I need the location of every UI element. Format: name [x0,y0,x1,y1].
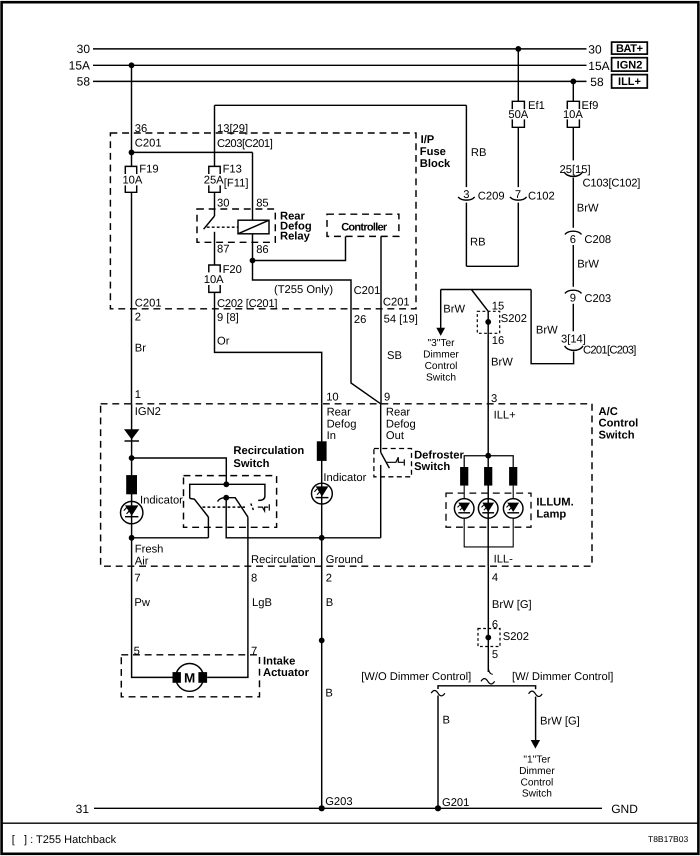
wire A/C pin 4 BrW[G] to splice S202 [487,566,489,672]
arrow to "3"Ter dimmer switch [436,328,445,336]
svg-text:10A: 10A [563,109,583,121]
resistor for indicator LED [126,475,137,494]
svg-text:Fuse: Fuse [420,146,446,158]
svg-text:87: 87 [217,244,229,256]
wire ground B with splice dot [319,638,325,644]
wire from 30 line to fuse Ef1 [517,49,519,101]
wire controller left output to relay pin 86 junction [253,236,346,260]
relay coil 85-86 [238,220,269,234]
svg-text:Rear: Rear [386,407,411,419]
svg-text:I/P: I/P [421,134,435,146]
svg-text:Switch: Switch [522,789,552,800]
LED lamp 2 [478,499,498,519]
svg-text:BrW: BrW [491,357,513,369]
svg-text:Relay: Relay [280,231,311,243]
svg-text:9: 9 [570,293,576,305]
junction Fresh Air corner [129,535,135,541]
intake actuator box [121,655,259,697]
svg-text:7: 7 [134,573,140,585]
wire coil feed pin 85 [252,152,254,220]
defroster switch S2 [374,449,412,477]
svg-text:GND: GND [611,802,638,816]
LED lamp 1 [454,499,474,519]
svg-text:BAT+: BAT+ [616,43,643,55]
junction ground bus [319,535,325,541]
junction on 58 line [570,79,576,85]
svg-text:Switch: Switch [426,372,456,383]
svg-text:Recirculation: Recirculation [233,445,304,457]
wire relay pin 86 [252,234,254,261]
svg-text:Intake: Intake [263,655,295,667]
wire BrW[G] to "1"Ter dimmer control switch [535,697,537,741]
wire from 58 line to fuse Ef9 [572,81,574,101]
fuse F13 25A [F11] [209,166,220,192]
label "1"Ter Dimmer Control Switch [519,755,555,800]
svg-text:F20: F20 [223,264,242,276]
svg-text:B: B [325,687,332,699]
node A common [223,481,229,487]
svg-text:Switch: Switch [599,429,635,441]
resistor lamp 1 [460,467,468,486]
svg-text:"1"Ter: "1"Ter [523,755,551,766]
svg-text:25[15]: 25[15] [560,164,591,176]
svg-text:36: 36 [135,123,147,135]
svg-text:BrW [G]: BrW [G] [492,599,532,611]
svg-text:B: B [443,714,450,726]
svg-text:Defog: Defog [327,418,357,430]
motor M brushes [173,672,181,683]
wire S202 pin 16 down to A/C pin 3 [487,311,489,455]
wire pin1 through diode/indicator chain to Fresh Air [131,404,133,538]
svg-text:T8B17B03: T8B17B03 [648,834,688,844]
momentary actuator glyph [258,504,270,511]
svg-text:Out: Out [386,430,405,442]
svg-text:9: 9 [384,391,390,403]
svg-text:Br: Br [135,343,146,355]
svg-text:A/C: A/C [599,406,618,418]
svg-text:RB: RB [470,237,486,249]
svg-text:C103[C102]: C103[C102] [583,177,641,189]
svg-text:30: 30 [588,42,602,56]
svg-text:Defroster: Defroster [414,449,464,461]
svg-text:In: In [327,430,336,442]
wire pin 10 through indicator to ground / G203 [321,404,323,809]
diode D1 [124,429,139,439]
controller U1 [327,214,399,236]
ground G201 [435,805,441,811]
relay actuating link (dashed) [207,226,238,228]
svg-text:Air: Air [135,555,149,567]
wire left contact down to ground segment [207,517,209,538]
svg-text:C208: C208 [584,234,611,246]
resistor lamp 2 [484,467,492,486]
svg-text:Dimmer: Dimmer [519,766,555,777]
svg-text:6: 6 [570,234,576,246]
relay Rear Defog Relay [197,209,275,242]
svg-text:85: 85 [256,198,268,210]
svg-text:C203: C203 [584,293,611,305]
switch linkage dashed [203,506,246,508]
svg-text:10A: 10A [122,175,142,187]
svg-text:5: 5 [134,646,140,658]
wire Ef1 to connector C102 [517,127,519,187]
wire BrW to connector C203 [572,245,574,287]
motor M [176,664,204,692]
svg-text:F13: F13 [223,164,242,176]
svg-text:S202: S202 [501,313,527,325]
wire ground segment to recirc left contact [132,537,209,539]
wire BrW to connector C208 [572,178,574,228]
svg-text:58: 58 [590,75,604,89]
svg-text:C102: C102 [528,191,555,203]
svg-text:Defog: Defog [386,418,416,430]
svg-text:30: 30 [77,42,91,56]
svg-text:4: 4 [492,572,498,584]
svg-text:Control: Control [520,777,553,788]
connector C209 pin 3 [458,197,475,200]
svg-text:Controller: Controller [341,221,388,233]
svg-text:C201: C201 [383,297,410,309]
power net BAT+ [612,42,648,54]
svg-text:C201[C203]: C201[C203] [583,344,636,356]
svg-text:31: 31 [76,802,90,816]
svg-text:C203[C201]: C203[C201] [217,138,273,150]
svg-text:Lamp: Lamp [536,508,566,520]
wire common bus of switch [190,484,265,500]
svg-text:8: 8 [251,573,257,585]
wire RB from top horizontal down to C209 [465,105,467,187]
svg-text:M: M [184,671,195,686]
recirculation switch S1 [184,476,277,528]
wire bus line 15A [93,64,587,66]
wire top horizontal F13 to RB [215,104,467,106]
wire C102 down to U-bend [517,203,519,267]
svg-text:Ef1: Ef1 [528,100,545,112]
svg-text:Switch: Switch [233,458,269,470]
wire controller right output SB down to A/C pin 9 [380,236,382,403]
wire lamp return bus ILL- [464,518,513,547]
splice S202 (lower) [478,629,500,647]
svg-text:C201: C201 [135,297,162,309]
LED lamp 3 [503,499,523,519]
resistor for defog indicator [317,441,327,461]
wire to recirculation switch common [132,458,227,484]
wire A/C pin 7 to intake actuator motor [132,538,173,678]
option break squiggle left [431,691,445,696]
wire end curl [488,668,492,674]
svg-text:5: 5 [492,649,498,661]
svg-text:[ ] : T255 Hatchback: [ ] : T255 Hatchback [12,834,117,846]
fuse Ef1 50A [512,101,524,127]
connector C203 pin 9 [565,290,582,293]
connector C102 pin 7 [510,197,527,200]
junction feeding relay coil [129,150,135,156]
svg-text:ILLUM.: ILLUM. [536,497,573,509]
svg-text:Or: Or [217,336,230,348]
svg-text:G201: G201 [442,797,469,809]
wire resistors into lamp box [464,486,513,499]
switch blade right [226,498,248,518]
svg-text:Ef9: Ef9 [582,100,599,112]
wire diagonal into splice S202 [471,290,488,312]
resistor lamp 3 [509,467,517,486]
power net ILL+ [612,75,648,88]
wire node B down to ground segment 2 [226,498,381,538]
svg-text:54 [19]: 54 [19] [384,313,418,325]
svg-text:13[29]: 13[29] [217,123,248,135]
svg-text:58: 58 [77,75,91,89]
svg-text:RB: RB [471,147,487,159]
svg-text:ILL+: ILL+ [618,76,641,88]
junction on 30 line [515,46,521,52]
wire lamp feed bus [464,456,513,467]
svg-text:Control: Control [599,418,639,430]
svg-text:Ground: Ground [326,554,363,566]
fuse F20 10A [209,265,220,292]
wire junction to relay coil pin 85 [132,151,253,153]
junction on 15A line [129,62,135,68]
svg-text:7: 7 [251,646,257,658]
svg-text:6: 6 [492,619,498,631]
LED indicator (rear defog) [312,483,333,504]
svg-text:Fresh: Fresh [135,544,164,556]
wire from 15A line down (net 36 C201) [131,65,133,166]
defroster switch blade [381,452,390,468]
option break squiggle right [529,691,543,696]
svg-text:2: 2 [326,573,332,585]
ground G203 [319,805,325,811]
wire RB from C209 down to U-bend [465,203,467,267]
svg-text:15: 15 [492,301,504,313]
connector C208 pin 6 [565,231,582,234]
svg-text:(T255 Only): (T255 Only) [274,284,333,296]
wire option bus [438,686,536,689]
wire F20 down C202[C201] 9[8] Or, bends right to A/C pin 10 [215,292,322,403]
power net IGN2 [612,58,648,71]
svg-text:ILL+: ILL+ [494,409,516,421]
svg-text:G203: G203 [325,796,352,808]
svg-text:1: 1 [135,389,141,401]
wire U-bend joining RB wire [466,265,518,267]
svg-text:7: 7 [515,189,521,201]
svg-text:Block: Block [420,158,451,170]
svg-text:10: 10 [326,391,338,403]
junction below diode [129,455,135,461]
svg-text:SB: SB [387,350,402,362]
label "3"Ter Dimmer Control Switch [423,338,459,384]
svg-text:16: 16 [492,335,504,347]
svg-text:ILL-: ILL- [494,553,514,565]
relay contact blade 30-87 [204,216,215,229]
junction relay 86 / controller / T255 branch [250,258,256,264]
svg-text:C201: C201 [354,285,381,297]
svg-text:IGN2: IGN2 [617,59,643,71]
momentary actuator glyph [386,457,404,465]
svg-text:BrW [G]: BrW [G] [540,715,580,727]
svg-text:B: B [326,597,333,609]
wire bus line 30 [93,48,587,50]
svg-text:Pw: Pw [134,597,150,609]
pin 3 junction to illumination lamps [485,453,491,459]
svg-text:"3"Ter: "3"Ter [427,338,455,349]
switch blade left [190,498,209,517]
svg-text:Control: Control [425,361,458,372]
option break squiggle [481,679,495,684]
svg-text:Rear: Rear [327,407,352,419]
svg-text:Indicator: Indicator [140,495,183,507]
svg-text:BrW: BrW [577,258,599,270]
svg-text:15A: 15A [69,59,90,73]
I/P Fuse Block [110,133,416,309]
wire 13[29] C203[C201] down to F13 [214,105,216,166]
svg-text:LgB: LgB [252,597,272,609]
svg-text:BrW: BrW [577,202,599,214]
svg-text:C209: C209 [478,191,505,203]
svg-text:C202 [C201]: C202 [C201] [217,298,278,310]
svg-text:86: 86 [256,244,268,256]
svg-text:C201: C201 [135,138,162,150]
svg-text:10A: 10A [204,274,224,286]
svg-text:S202: S202 [503,631,529,643]
svg-text:BrW: BrW [536,324,558,336]
wire ILL+ horizontal to dimmer branch [441,289,531,291]
arrow to "1"Ter dimmer switch [531,740,540,749]
svg-text:2: 2 [135,311,141,323]
svg-text:Indicator: Indicator [323,472,366,484]
wire Ef9 to connector C103 [572,127,574,160]
wire F13 to relay pin 30 [214,192,216,216]
node B pole [223,495,229,501]
svg-text:30: 30 [217,198,229,210]
svg-text:Dimmer: Dimmer [423,350,459,361]
ILLUM. Lamp box [446,493,531,527]
wire F19 down to A/C pin 1 (Br) [131,192,133,403]
svg-text:50A: 50A [508,109,528,121]
A/C Control Switch box [101,404,592,566]
svg-text:9 [8]: 9 [8] [217,312,239,324]
svg-text:IGN2: IGN2 [135,406,161,418]
svg-text:Switch: Switch [414,461,450,473]
LED indicator (fresh air) [121,501,143,523]
svg-text:15A: 15A [588,59,609,73]
svg-text:BrW: BrW [443,304,465,316]
wire C203 to connector C201 [572,304,574,332]
footer separator line [3,822,698,824]
wire bottom ground bus 31 [94,807,602,809]
wire B to ground G201 [437,696,439,809]
svg-text:Recirculation: Recirculation [251,554,316,566]
wire to "3"Ter dimmer control switch [440,290,442,329]
splice S202 [477,311,499,333]
svg-text:[W/ Dimmer Control]: [W/ Dimmer Control] [512,671,613,683]
svg-text:3: 3 [463,189,469,201]
fuse F19 10A [125,166,136,192]
wire bus line 58 [93,80,587,82]
svg-text:26: 26 [354,314,366,326]
svg-text:Actuator: Actuator [263,667,310,679]
svg-text:[W/O Dimmer Control]: [W/O Dimmer Control] [361,671,471,683]
wire (T255 Only) branch to A/C pin 9 [253,261,381,404]
wire pin3-pin4 center through lamps [487,456,489,567]
wire pin 9 into defroster switch [380,404,382,453]
wire relay pin 87 to F20 [214,232,216,265]
fuse Ef9 10A [567,101,579,127]
wire recirc contact to pin 8 and intake actuator [207,517,248,677]
wire defroster contact down to ground bus [380,465,382,538]
svg-text:[F11]: [F11] [224,178,249,190]
wire from C201[C203] down and left [531,290,574,364]
svg-text:25A: 25A [204,175,224,187]
